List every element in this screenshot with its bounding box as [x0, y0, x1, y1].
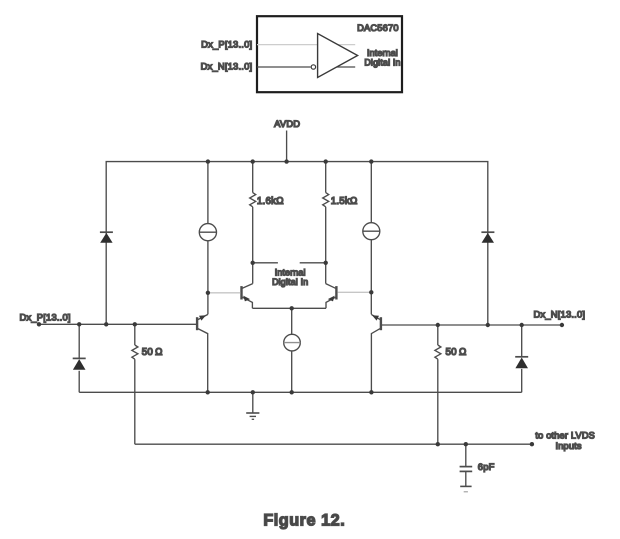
svg-text:1.5kΩ: 1.5kΩ: [331, 196, 358, 207]
transistor Q3 (mid-right NPN) bar: [335, 286, 337, 299]
svg-text:Dx_P[13..0]: Dx_P[13..0]: [201, 39, 252, 50]
svg-text:Dx_N[13..0]: Dx_N[13..0]: [201, 60, 253, 71]
node emitter tail junction: [290, 306, 294, 310]
svg-text:1.6kΩ: 1.6kΩ: [257, 196, 284, 207]
ground symbol (under C1): [460, 485, 471, 487]
Q1 emitter diagonal + arrow: [198, 314, 208, 319]
wire Dx_P input line: [39, 323, 196, 325]
buffer U1 triangle: [318, 34, 358, 78]
capacitor C1 plates: [460, 466, 473, 468]
svg-text:50 Ω: 50 Ω: [446, 347, 467, 358]
Q2 collector diagonal: [242, 284, 252, 289]
wire lower rail (to other LVDS inputs): [135, 443, 532, 445]
Q3 emitter diagonal: [326, 297, 336, 308]
svg-text:6pF: 6pF: [478, 461, 495, 472]
current source I3 (tail): [284, 334, 301, 351]
svg-text:Dx_N[13..0]: Dx_N[13..0]: [534, 308, 586, 319]
diode D1 triangle: [100, 233, 112, 243]
Q4 collector diagonal down: [371, 329, 380, 393]
node top rail junctions: [206, 159, 210, 163]
resistor R1 zigzag: [250, 193, 256, 207]
wire Dx_P into box (gray): [257, 44, 355, 46]
resistor R4 50 ohm branch: [437, 325, 439, 345]
diode D2 bar: [73, 357, 86, 359]
wire Dx_N input line: [382, 324, 562, 326]
node ground rail junctions: [206, 390, 210, 394]
wire Dx_N into box: [257, 66, 311, 68]
resistor R3 50 ohm branch: [134, 324, 136, 345]
diode D2 triangle: [73, 359, 86, 370]
diode D1 (upper-left clamp) bar: [100, 231, 113, 233]
block box DAC5670: [257, 16, 402, 92]
white backing of mid label: [278, 259, 300, 267]
node collector crossbar junctions: [251, 261, 255, 265]
svg-text:to other LVDS: to other LVDS: [535, 430, 595, 440]
diode D3 (upper-right clamp) bar: [481, 231, 494, 233]
svg-text:Dx_P[13..0]: Dx_P[13..0]: [20, 311, 71, 322]
svg-text:Digital In: Digital In: [364, 58, 400, 68]
node base tap junctions: [206, 291, 210, 295]
Q3 base wire (gray): [338, 291, 372, 293]
wire Dx_N inside triangle segment: [337, 66, 356, 68]
wire AVDD stub: [286, 131, 288, 162]
svg-text:Inputs: Inputs: [555, 441, 581, 451]
Q2 emitter diagonal: [242, 297, 252, 308]
diode D2 to ground rail: [78, 371, 80, 393]
node Dx_P terminal and taps: [37, 322, 41, 326]
svg-text:DAC5670: DAC5670: [357, 23, 399, 33]
ground stub: [252, 392, 254, 413]
resistor R1 1.6k branch wire: [252, 162, 254, 193]
Q3 collector diagonal: [326, 284, 336, 289]
svg-text:AVDD: AVDD: [274, 118, 300, 129]
wire ground rail: [79, 391, 522, 393]
Q3 emitter arrow: [328, 296, 335, 302]
diode D4 to ground rail: [521, 369, 523, 392]
Q1 collector diagonal down: [198, 329, 208, 393]
svg-text:Figure 12.: Figure 12.: [263, 511, 345, 529]
wire right current-source branch: [370, 162, 372, 223]
transistor Q1 (outer-left) bar: [196, 317, 198, 330]
wire left current-source branch: [207, 162, 209, 224]
Q2 base wire (gray): [208, 292, 241, 294]
transistor Q2 (mid-left NPN) bar: [240, 286, 242, 299]
diode D4 bar: [515, 356, 528, 358]
diode D3 triangle: [482, 233, 494, 243]
Q2 emitter arrow: [243, 296, 250, 302]
transistor Q4 (outer-right) bar: [380, 317, 382, 330]
node Dx_N taps and terminal: [436, 323, 440, 327]
Q4 emitter diagonal + arrow: [371, 314, 380, 319]
resistor R2 zigzag: [323, 193, 329, 207]
diode D4 (lower-right clamp) wire: [521, 325, 523, 357]
capacitor C1 6pF wire top: [465, 444, 467, 466]
wire top rail: [106, 162, 488, 325]
node lower rail junctions: [436, 442, 440, 446]
diode D2 (lower-left clamp) wire: [78, 324, 80, 358]
wire collector crossbar (mid pair): [253, 262, 326, 264]
wire tail to ground rail: [291, 351, 293, 392]
svg-text:Digital In: Digital In: [272, 277, 308, 287]
wire tail down: [291, 308, 293, 334]
diode D4 triangle: [515, 358, 528, 369]
ground symbol (center): [246, 412, 259, 414]
inversion bubble on U1 input: [311, 65, 315, 69]
wire emitters join: [252, 307, 326, 309]
capacitor C1 wire bottom: [465, 471, 467, 486]
svg-text:50 Ω: 50 Ω: [142, 347, 163, 358]
current source I2: [363, 223, 380, 240]
current source I1: [199, 224, 216, 241]
svg-text:Internal: Internal: [275, 267, 306, 277]
resistor R2 1.5k branch wire: [325, 162, 327, 193]
